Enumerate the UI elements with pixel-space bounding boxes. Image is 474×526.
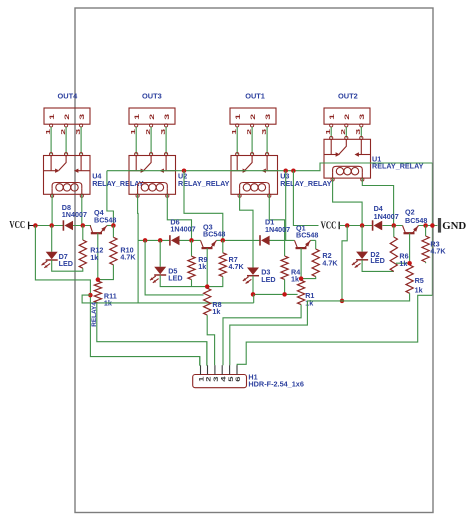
node on contact bus (to VCC rail D)	[291, 168, 296, 173]
svg-text:OUT2: OUT2	[338, 92, 358, 101]
wire U3 coil right to R4 node	[269, 194, 284, 240]
svg-text:6: 6	[235, 376, 242, 382]
svg-text:BC548: BC548	[94, 215, 116, 224]
node Q4 base / R11	[96, 277, 101, 282]
LED D2	[361, 226, 363, 252]
node Q3 emitter / R7	[221, 238, 226, 243]
resistor R7	[222, 240, 224, 252]
diode D4	[372, 220, 374, 230]
relay U1	[324, 139, 371, 178]
svg-text:2: 2	[249, 114, 256, 120]
wire contact bus tap down to channel D rail	[293, 171, 318, 226]
svg-text:1k: 1k	[198, 262, 206, 271]
transistor Q3	[202, 247, 213, 249]
GND symbol	[438, 218, 441, 233]
svg-text:RELAY_RELAY: RELAY_RELAY	[280, 179, 332, 188]
svg-text:2: 2	[245, 129, 252, 135]
svg-text:1N4007: 1N4007	[374, 212, 399, 221]
svg-text:3: 3	[264, 114, 271, 120]
node RELAY4 branch	[88, 293, 93, 298]
wire Q2 base down	[409, 233, 411, 263]
svg-text:OUT1: OUT1	[245, 92, 265, 101]
node R12 top	[81, 223, 86, 228]
resistor R6	[393, 226, 395, 238]
svg-text:4.7K: 4.7K	[322, 258, 338, 267]
transistor Q1	[296, 247, 307, 249]
wire LED D2 bottom to R6 bottom	[362, 260, 394, 272]
resistor R9	[191, 240, 193, 256]
svg-text:1: 1	[325, 129, 332, 135]
wire VCC rail B/C	[138, 239, 169, 241]
wire connector OUT1 to relay U3	[236, 127, 238, 154]
svg-text:LED: LED	[168, 274, 182, 283]
svg-text:RELAY_RELAY: RELAY_RELAY	[178, 179, 230, 188]
svg-text:3: 3	[163, 114, 170, 120]
wire Q3 base down	[206, 248, 208, 287]
relay U3	[231, 156, 278, 195]
wire stubs to header	[199, 357, 202, 366]
svg-text:HDR-F-2.54_1x6: HDR-F-2.54_1x6	[248, 379, 304, 388]
svg-text:3: 3	[260, 129, 267, 135]
node Q2 emitter / R3	[423, 223, 428, 228]
svg-text:4.7K: 4.7K	[120, 253, 136, 262]
resistor R1	[298, 280, 305, 304]
svg-text:1: 1	[133, 114, 140, 120]
resistor R2	[315, 240, 317, 249]
wire U1 coil left to LED D2 node	[333, 178, 363, 226]
svg-text:LED: LED	[370, 256, 384, 265]
wire U-loop	[82, 295, 254, 303]
wire U4 coil left to LED D7 node	[51, 194, 53, 225]
frame border	[75, 8, 433, 513]
svg-text:3: 3	[159, 129, 166, 135]
node R9 top	[189, 238, 194, 243]
svg-text:1N4007: 1N4007	[170, 225, 195, 234]
LED D5	[159, 240, 161, 266]
svg-text:1: 1	[130, 129, 137, 135]
svg-text:RELAY4: RELAY4	[91, 302, 98, 327]
wire U1 coil right to R6 node	[362, 178, 393, 226]
node rail-D contact tap	[345, 223, 350, 228]
node on contact bus (to R4 rail)	[283, 168, 288, 173]
wire relay contact bus	[107, 163, 433, 171]
svg-text:LED: LED	[59, 259, 73, 268]
svg-text:1: 1	[328, 114, 335, 120]
node R6 top	[392, 223, 397, 228]
svg-text:1: 1	[234, 114, 241, 120]
node LED D3 bottom	[251, 292, 256, 297]
resistor R3	[425, 226, 427, 237]
node GND junction	[430, 223, 435, 228]
svg-text:1N4007: 1N4007	[265, 225, 290, 234]
svg-text:BC548: BC548	[203, 229, 225, 238]
svg-text:R5: R5	[415, 276, 424, 285]
relay U2	[129, 156, 176, 195]
svg-text:1k: 1k	[305, 298, 313, 307]
diode D8	[62, 220, 64, 230]
wire connector OUT4 to relay U4	[50, 127, 52, 154]
svg-text:3: 3	[213, 376, 220, 382]
resistor R8	[204, 288, 211, 315]
node VCC-A 2 (LED D7)	[49, 223, 54, 228]
svg-text:1k: 1k	[415, 285, 423, 294]
wire contact bus tap down to rail at R4	[285, 171, 287, 241]
svg-text:2: 2	[59, 129, 66, 135]
node tap joins R5 line	[340, 299, 345, 304]
wire rail-B branch down	[145, 240, 204, 295]
svg-text:4: 4	[220, 376, 227, 382]
wire contact bus tap to Q3 emitter node	[184, 171, 223, 241]
LED D7	[51, 226, 53, 252]
wire U2 coil left to rail	[137, 194, 140, 240]
svg-text:2: 2	[343, 114, 350, 120]
wire R8 bottom to header pin 3	[207, 315, 214, 365]
connector OUT2	[324, 108, 370, 124]
resistor R10	[112, 226, 114, 238]
svg-text:2: 2	[144, 129, 151, 135]
node Q2 base / R5	[407, 261, 412, 266]
svg-text:3: 3	[355, 129, 362, 135]
svg-text:1: 1	[48, 114, 55, 120]
wire Q4 base down	[97, 233, 99, 279]
wire VCC rail A	[35, 225, 63, 227]
header H1	[193, 375, 247, 388]
wire GND bus drop (behind frame)	[431, 163, 433, 295]
wire VCC-A down-left branch	[35, 226, 199, 366]
wire LED D5 bottom to base node	[160, 275, 207, 287]
svg-text:OUT3: OUT3	[142, 92, 162, 101]
svg-text:RELAY_RELAY: RELAY_RELAY	[92, 179, 144, 188]
wire R1 bottom to header pin 4	[223, 305, 301, 366]
svg-text:BC548: BC548	[405, 216, 427, 225]
wire riser to channel B/C rail	[137, 240, 139, 303]
wire GND to header pin 6	[237, 295, 432, 365]
node Q1 base / R1	[299, 276, 304, 281]
diode D1	[259, 235, 261, 245]
svg-text:2: 2	[340, 129, 347, 135]
wire U2 coil right to R9 node	[167, 194, 191, 240]
svg-text:2: 2	[63, 114, 70, 120]
wire LED D7 bottom to R12 bottom	[52, 260, 83, 271]
connector OUT4	[44, 108, 90, 124]
svg-text:1: 1	[231, 129, 238, 135]
node Q3 base / R8	[205, 284, 210, 289]
transistor Q4	[91, 232, 102, 234]
node R4 bottom	[282, 292, 287, 297]
svg-text:1: 1	[198, 376, 205, 382]
connector OUT1	[230, 108, 276, 124]
wire R6 tap to R5 top	[396, 262, 410, 264]
svg-text:3: 3	[78, 114, 85, 120]
wire R11 bottom to header pin 2	[97, 303, 207, 365]
diode D6	[169, 235, 171, 245]
wire U4 coil right to R12 node	[81, 194, 83, 225]
resistor R5	[406, 265, 413, 293]
svg-text:2: 2	[205, 376, 212, 382]
wire VCC rail D	[339, 225, 372, 227]
wire connector OUT3 to relay U2	[135, 127, 137, 154]
svg-text:5: 5	[227, 376, 234, 382]
svg-text:1k: 1k	[90, 253, 98, 262]
svg-text:VCC: VCC	[321, 221, 337, 232]
node LED D5 top	[158, 238, 163, 243]
wire contact bus to Q4 emitter node	[107, 171, 114, 226]
wire Q1 base down	[300, 248, 302, 279]
svg-text:3: 3	[358, 114, 365, 120]
svg-text:1k: 1k	[399, 259, 407, 268]
svg-text:VCC: VCC	[9, 220, 25, 231]
svg-text:BC548: BC548	[296, 231, 318, 240]
node LED D2 top	[360, 223, 365, 228]
svg-text:2: 2	[148, 114, 155, 120]
wire connector OUT2 to relay U1	[330, 127, 332, 138]
resistor R4	[284, 240, 286, 256]
svg-text:LED: LED	[261, 275, 275, 284]
node on contact bus right of U2	[182, 168, 187, 173]
svg-text:OUT4: OUT4	[58, 92, 79, 101]
resistor R11	[94, 281, 101, 303]
connector OUT3	[129, 108, 175, 124]
svg-text:1: 1	[44, 129, 51, 135]
LED D3	[252, 240, 254, 267]
wire rail-D tap down	[342, 226, 347, 301]
relay U4	[44, 156, 91, 195]
svg-text:4.7K: 4.7K	[229, 262, 245, 271]
node VCC-A 1	[33, 223, 38, 228]
wire U3 coil left to LED D3 node	[240, 194, 253, 240]
wire R5 bottom to header pin 5	[230, 293, 410, 365]
svg-text:1N4007: 1N4007	[62, 210, 87, 219]
node rail-B left	[143, 238, 148, 243]
svg-text:1k: 1k	[212, 307, 220, 316]
svg-text:1k: 1k	[291, 275, 299, 284]
wire riser LED D3 node to bus	[253, 294, 255, 303]
node Q4 emitter / R10	[111, 223, 116, 228]
transistor Q2	[404, 232, 415, 234]
resistor R12	[82, 226, 84, 241]
wire LED D3 bottom	[253, 276, 298, 295]
svg-text:GND: GND	[442, 221, 466, 232]
svg-text:4.7K: 4.7K	[430, 247, 446, 256]
svg-text:3: 3	[74, 129, 81, 135]
